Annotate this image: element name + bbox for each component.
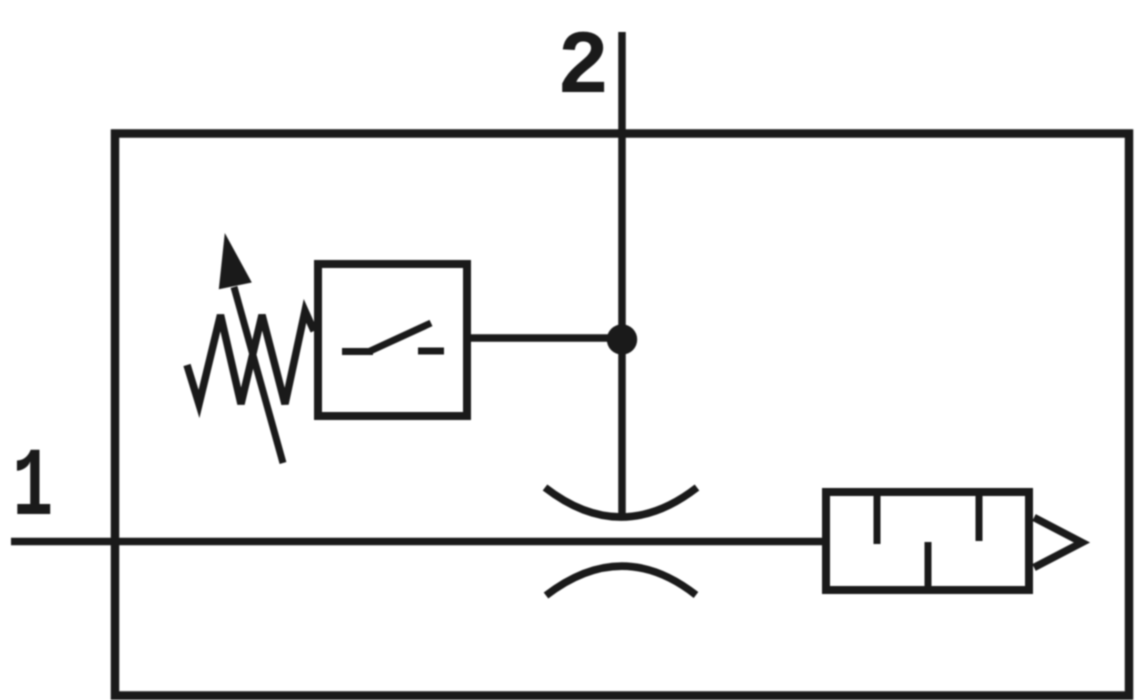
silencer baffle 2 — [925, 542, 932, 590]
wire port 2 vertical — [618, 32, 626, 516]
spring (adjustable) — [187, 311, 314, 404]
silencer baffle 1 — [874, 492, 881, 544]
silencer outlet triangle — [1034, 518, 1082, 568]
wire main flow line port 1 — [11, 538, 826, 546]
throttle lower arc — [546, 566, 696, 595]
switch contact left terminal — [342, 348, 373, 355]
throttle upper arc — [545, 488, 697, 518]
adjustment arrowhead — [219, 233, 252, 289]
switch contact blade — [368, 323, 431, 352]
silencer body — [826, 492, 1029, 590]
node junction dot — [607, 324, 637, 354]
port 2 label — [557, 17, 609, 120]
enclosure box — [115, 134, 1129, 696]
pressure switch box — [318, 264, 467, 416]
port 1 label — [12, 434, 53, 544]
wire switch to junction — [467, 334, 622, 342]
adjustment arrow shaft — [234, 287, 283, 463]
silencer baffle 3 — [976, 492, 983, 541]
svg-text:1: 1 — [12, 434, 53, 544]
svg-text:2: 2 — [557, 17, 609, 120]
switch contact right terminal — [418, 348, 444, 355]
